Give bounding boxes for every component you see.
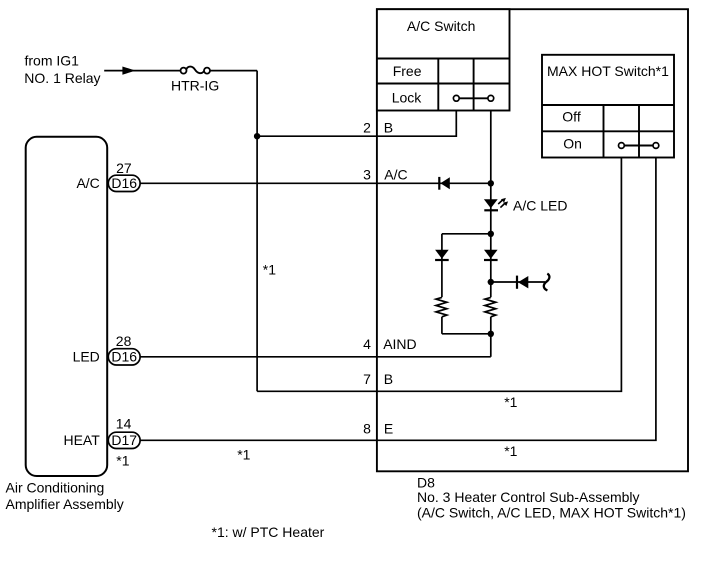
label from IG1 NO. 1 Relay xyxy=(24,53,100,87)
wire branch to left diode xyxy=(442,233,491,235)
junction LED branch split xyxy=(488,231,494,237)
switch contacts inside MAX HOT Switch on row xyxy=(619,143,659,149)
svg-text:28: 28 xyxy=(116,333,132,349)
svg-text:HTR-IG: HTR-IG xyxy=(171,78,219,94)
svg-text:LED: LED xyxy=(73,348,100,364)
svg-text:*1: w/ PTC Heater: *1: w/ PTC Heater xyxy=(212,524,325,540)
pin 4 label AIND xyxy=(363,336,417,352)
connector D16 pin 27 A/C xyxy=(76,160,140,191)
svg-text:A/C Switch: A/C Switch xyxy=(407,18,475,34)
diode D1 on A/C line xyxy=(439,177,450,190)
wire left branch vertical xyxy=(441,234,443,297)
wire vertical HTR-IG feed down to 7 B row xyxy=(256,71,258,392)
wire node E pin 8 to MAX HOT right contact xyxy=(140,158,656,441)
arrow on IG1 wire xyxy=(122,67,135,75)
svg-text:Free: Free xyxy=(393,63,422,79)
svg-text:7: 7 xyxy=(363,371,371,387)
wire below left resistor xyxy=(441,317,443,334)
svg-text:No. 3 Heater Control Sub-Assem: No. 3 Heater Control Sub-Assembly xyxy=(417,489,640,505)
svg-text:from IG1: from IG1 xyxy=(25,53,80,69)
connector D16 pin 28 LED xyxy=(73,333,141,365)
svg-text:A/C: A/C xyxy=(76,175,99,191)
pin 7 label B xyxy=(363,371,393,387)
svg-text:*1: *1 xyxy=(504,443,517,459)
resistor R1 left xyxy=(436,297,447,316)
junction at B feed xyxy=(254,133,260,139)
wire resistor bottoms join xyxy=(442,333,491,335)
svg-text:*1: *1 xyxy=(263,262,276,278)
svg-text:*1: *1 xyxy=(116,452,129,468)
svg-text:B: B xyxy=(384,371,393,387)
label Air Conditioning Amplifier Assembly xyxy=(6,479,124,512)
connector D17 pin 14 HEAT xyxy=(63,416,140,469)
wire from IG1 to fuse xyxy=(104,70,181,72)
svg-text:4: 4 xyxy=(363,336,371,352)
svg-text:14: 14 xyxy=(116,416,132,432)
box D8 No.3 Heater Control Sub-Assembly xyxy=(377,9,688,471)
diode D3 right branch xyxy=(484,250,498,260)
svg-text:D8: D8 xyxy=(417,474,435,490)
wire to external diode xyxy=(491,281,545,283)
wire below right resistor xyxy=(490,317,492,357)
wire A/C switch right contact down through LED branch xyxy=(490,111,492,298)
svg-text:(A/C Switch, A/C LED, MAX HOT: (A/C Switch, A/C LED, MAX HOT Switch*1) xyxy=(417,504,686,520)
svg-text:Off: Off xyxy=(562,108,581,124)
svg-text:D17: D17 xyxy=(111,432,137,448)
svg-text:MAX HOT Switch*1: MAX HOT Switch*1 xyxy=(547,63,669,79)
svg-text:27: 27 xyxy=(116,160,132,176)
svg-text:A/C: A/C xyxy=(384,167,407,183)
wire node A/C pin 3 xyxy=(140,182,491,184)
label D8 sub-assembly caption xyxy=(417,474,686,520)
MAX HOT Switch box S2 xyxy=(542,55,674,158)
svg-text:3: 3 xyxy=(363,167,371,183)
svg-text:AIND: AIND xyxy=(383,336,416,352)
fuse HTR-IG xyxy=(171,67,219,94)
junction resistor join xyxy=(488,331,494,337)
A/C Switch box U1 xyxy=(377,9,510,110)
svg-text:Amplifier Assembly: Amplifier Assembly xyxy=(6,496,124,512)
pin 2 label B xyxy=(363,119,393,135)
diode D4 external xyxy=(517,276,528,289)
svg-text:8: 8 xyxy=(363,421,371,437)
pin 3 label A/C xyxy=(363,167,408,183)
resistor R2 right xyxy=(485,297,496,316)
pin 8 label E xyxy=(363,421,393,437)
wire node B pin 2 xyxy=(257,111,456,137)
svg-text:Air Conditioning: Air Conditioning xyxy=(6,479,105,495)
A/C LED xyxy=(484,198,508,210)
svg-text:NO. 1 Relay: NO. 1 Relay xyxy=(24,70,100,86)
Air Conditioning Amplifier Assembly box xyxy=(26,137,108,476)
svg-text:*1: *1 xyxy=(237,446,250,462)
connector continuation squiggle xyxy=(544,274,550,291)
svg-text:D16: D16 xyxy=(111,349,137,365)
diode D2 left branch xyxy=(435,250,449,260)
svg-text:On: On xyxy=(563,136,582,152)
svg-text:E: E xyxy=(384,421,393,437)
wire node B pin 7 to MAX HOT left contact xyxy=(257,158,621,392)
svg-text:Lock: Lock xyxy=(392,89,423,105)
svg-text:2: 2 xyxy=(363,119,371,135)
junction pin3/switch xyxy=(488,180,494,186)
wire node AIND pin 4 from LED pin xyxy=(140,356,491,358)
svg-text:D16: D16 xyxy=(111,175,137,191)
switch contacts inside A/C Switch lock row xyxy=(453,95,493,101)
svg-text:B: B xyxy=(384,119,393,135)
svg-text:*1: *1 xyxy=(504,394,517,410)
svg-text:HEAT: HEAT xyxy=(63,432,100,448)
wire fuse to corner xyxy=(210,70,257,72)
junction to external diode xyxy=(488,279,494,285)
svg-text:A/C LED: A/C LED xyxy=(513,198,567,214)
